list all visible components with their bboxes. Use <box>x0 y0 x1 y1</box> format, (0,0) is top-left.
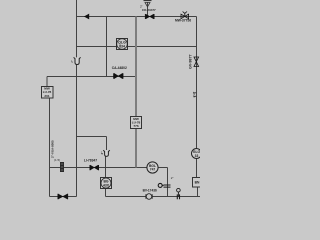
svg-text:834: 834 <box>119 45 125 49</box>
svg-text:2": 2" <box>140 5 143 9</box>
svg-text:43X: 43X <box>103 184 110 188</box>
svg-text:MW-37756: MW-37756 <box>175 18 191 22</box>
svg-text:2": 2" <box>70 60 74 63</box>
svg-text:776: 776 <box>133 124 138 128</box>
svg-text:BV-17436: BV-17436 <box>143 188 157 192</box>
svg-text:33: 33 <box>195 154 199 158</box>
svg-text:CA-44802: CA-44802 <box>112 66 127 70</box>
svg-text:2"-VGA-8005: 2"-VGA-8005 <box>50 140 54 158</box>
svg-text:2": 2" <box>171 176 174 180</box>
svg-text:CO-23477: CO-23477 <box>142 8 156 12</box>
svg-text:(1.5): (1.5) <box>54 158 60 162</box>
svg-text:747: 747 <box>150 168 156 172</box>
svg-text:BN: BN <box>195 181 200 185</box>
svg-text:GV-9877: GV-9877 <box>188 54 192 69</box>
svg-text:2"x1": 2"x1" <box>193 92 196 98</box>
svg-text:LI-78347: LI-78347 <box>84 158 97 162</box>
svg-text:201: 201 <box>44 94 49 98</box>
